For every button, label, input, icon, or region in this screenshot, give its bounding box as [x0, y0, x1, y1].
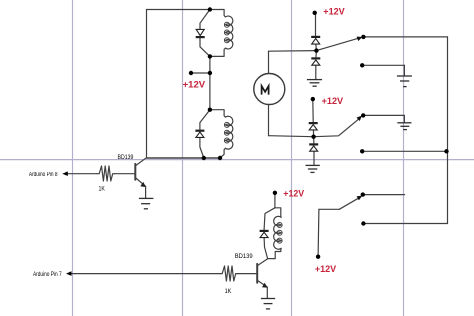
svg-text:+12V: +12V	[183, 78, 206, 89]
svg-text:1K: 1K	[225, 288, 232, 295]
svg-text:BD139: BD139	[235, 253, 253, 260]
svg-text:+12V: +12V	[283, 187, 305, 198]
svg-text:Arduino Pin 7: Arduino Pin 7	[33, 272, 62, 278]
svg-text:Arduino Pin 8: Arduino Pin 8	[29, 172, 58, 178]
svg-text:BD139: BD139	[118, 154, 134, 161]
svg-text:+12V: +12V	[315, 263, 337, 274]
svg-text:+12V: +12V	[323, 6, 345, 17]
svg-text:+12V: +12V	[322, 95, 344, 106]
svg-text:1K: 1K	[99, 186, 106, 193]
